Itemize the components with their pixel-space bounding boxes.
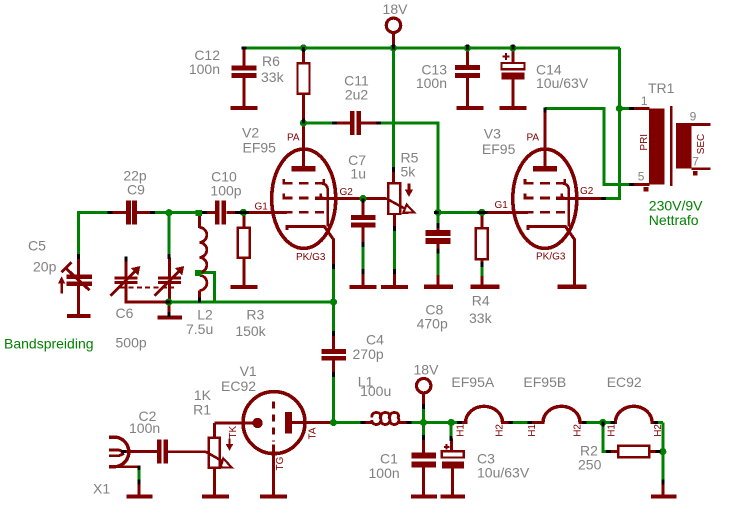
svg-text:100n: 100n xyxy=(369,465,400,481)
junction L2 top xyxy=(195,210,201,216)
resistor R5 xyxy=(388,183,400,214)
label C14 xyxy=(536,61,589,91)
svg-text:5k: 5k xyxy=(401,163,417,179)
transformer TR1 pri dot xyxy=(643,187,648,192)
tube V3 G1 wire xyxy=(484,211,529,214)
pin label TR1 1 xyxy=(641,94,648,108)
capacitor C5 xyxy=(66,275,92,286)
svg-text:C5: C5 xyxy=(28,238,46,254)
label C8 xyxy=(417,301,448,331)
svg-text:SEC: SEC xyxy=(696,134,707,155)
inductor L1 xyxy=(362,413,410,425)
svg-text:Bandspreiding: Bandspreiding xyxy=(4,335,94,351)
wire heater EC92 right link xyxy=(657,421,663,424)
svg-text:R1: R1 xyxy=(193,401,211,417)
tube V3 anode lead xyxy=(543,111,546,167)
capacitor C13 xyxy=(455,65,480,78)
svg-text:EF95: EF95 xyxy=(243,140,277,156)
resistor R6 xyxy=(298,63,310,94)
wire tuned-circuit bottom bus xyxy=(167,301,334,304)
capacitor C5 lead xyxy=(77,258,80,276)
ground R4 xyxy=(470,285,499,289)
wire C10 to V2 G1 dot xyxy=(237,211,245,214)
resistor R5 wiper xyxy=(387,184,415,213)
svg-text:250: 250 xyxy=(578,457,602,473)
label C7 xyxy=(348,152,366,182)
transformer TR1 core xyxy=(670,106,673,186)
capacitor C12 lower lead xyxy=(243,78,246,106)
resistor R1 top lead xyxy=(213,423,216,438)
capacitor C3 lower lead xyxy=(451,468,454,494)
svg-text:EC92: EC92 xyxy=(607,374,642,390)
svg-text:5: 5 xyxy=(638,170,645,184)
junction V3 R4 xyxy=(478,209,485,216)
svg-text:PA: PA xyxy=(287,133,300,144)
wire C7 ground segment xyxy=(362,243,365,274)
inductor L2 bottom lead xyxy=(198,291,201,301)
tube V3 G2 wire xyxy=(556,197,603,200)
svg-text:H1: H1 xyxy=(527,424,538,437)
svg-text:G1: G1 xyxy=(255,202,269,213)
resistor R3 xyxy=(238,228,250,258)
tube V1 envelope xyxy=(243,392,305,454)
tube V2 G1 wire xyxy=(245,211,287,214)
capacitor C8 lead xyxy=(437,225,440,231)
capacitor C1 lower lead xyxy=(422,468,425,495)
wire C8 top segment xyxy=(437,212,440,224)
label V2 xyxy=(242,124,276,155)
capacitor C4 xyxy=(322,349,347,360)
wire V3 G2 segment xyxy=(603,197,619,200)
svg-text:2u2: 2u2 xyxy=(345,87,369,103)
pin label V3 PK/G3 xyxy=(536,251,566,262)
svg-text:H2: H2 xyxy=(573,424,584,437)
svg-text:G2: G2 xyxy=(580,186,594,197)
wire 18V drop to R5 xyxy=(392,48,395,169)
junction rail 18V xyxy=(390,44,397,51)
tube V3 envelope and electrodes xyxy=(513,149,577,248)
capacitor C8 xyxy=(426,230,451,244)
wire L2 tap link xyxy=(199,273,215,303)
label C4 xyxy=(353,332,385,362)
svg-text:EF95A: EF95A xyxy=(451,374,494,390)
svg-text:TR1: TR1 xyxy=(648,80,675,96)
label heater EF95A xyxy=(451,374,494,390)
capacitor C5 trimmer mark xyxy=(62,262,90,290)
svg-text:X1: X1 xyxy=(93,480,110,496)
svg-text:EF95B: EF95B xyxy=(523,374,566,390)
ground R2 xyxy=(651,494,676,498)
svg-text:9: 9 xyxy=(690,110,697,124)
svg-text:Nettrafo: Nettrafo xyxy=(649,212,699,228)
junction V2 G1 xyxy=(240,209,247,216)
resistor R1 bottom lead xyxy=(213,468,216,495)
label R3 xyxy=(235,307,266,340)
junction R2 right xyxy=(659,448,666,455)
junction C6 bottom xyxy=(165,298,172,305)
label C12 xyxy=(189,47,220,77)
svg-text:10u/63V: 10u/63V xyxy=(477,465,530,481)
capacitor C10 leads xyxy=(204,211,237,214)
svg-text:TK: TK xyxy=(228,425,239,438)
label C9 xyxy=(123,168,147,198)
wire V2 cathode drop lower part xyxy=(332,268,335,302)
svg-text:18V: 18V xyxy=(383,1,409,17)
capacitor C14 lead xyxy=(512,48,515,64)
capacitor C9 leads xyxy=(109,211,154,214)
ground C12 xyxy=(231,106,258,110)
pin label H1 a xyxy=(456,424,467,437)
wire R4 ground segment xyxy=(480,266,483,277)
capacitor C14 plus xyxy=(503,53,510,60)
label V1 xyxy=(221,363,257,394)
svg-text:PK/G3: PK/G3 xyxy=(296,252,326,263)
resistor R3 bottom lead xyxy=(242,258,245,285)
ground R5 xyxy=(381,285,408,289)
capacitor C6 gangA stub xyxy=(124,259,127,277)
capacitor C11 leads xyxy=(334,122,380,125)
capacitor C6 gangB lead xyxy=(168,258,171,277)
wire C4 to V1 anode node xyxy=(332,375,335,422)
tube V2 cathode drop xyxy=(332,239,335,268)
wire L1 to 18V node xyxy=(410,421,425,424)
pin label H1 b xyxy=(527,424,538,437)
wire R6/C11/V2-anode node link xyxy=(304,122,334,125)
capacitor C10 xyxy=(215,200,226,224)
svg-text:TG: TG xyxy=(275,456,286,470)
ground C3 xyxy=(441,494,466,498)
wire C9 to C10 segment xyxy=(154,211,204,214)
pin label V2 PK/G3 xyxy=(296,252,326,263)
ground X1 xyxy=(127,494,153,498)
label R5 xyxy=(401,150,419,180)
connector X1 pin xyxy=(109,450,124,456)
svg-text:G2: G2 xyxy=(340,187,354,198)
capacitor C13 lower lead xyxy=(466,78,469,106)
capacitor C6 gangA bottom xyxy=(126,284,167,302)
heater EF95A arc xyxy=(461,406,510,422)
svg-text:C6: C6 xyxy=(116,305,134,321)
tube V1 cathode dot and TK wire xyxy=(215,418,263,428)
junction TR1 pin1 xyxy=(616,105,623,112)
wire C6 gangB feed xyxy=(167,213,170,258)
svg-text:100n: 100n xyxy=(416,75,447,91)
svg-text:100n: 100n xyxy=(129,420,160,436)
svg-text:1u: 1u xyxy=(350,166,366,182)
svg-text:PRI: PRI xyxy=(639,134,650,151)
pin label TR1 SEC xyxy=(696,134,707,155)
label C3 xyxy=(477,450,530,480)
pin label V3 G2 xyxy=(580,186,594,197)
wire R2 left branch xyxy=(603,423,608,452)
svg-text:7: 7 xyxy=(692,155,699,169)
pin label V2 G1 xyxy=(255,202,269,213)
pin label TR1 PRI xyxy=(639,134,650,151)
wire 18V node down to C1 xyxy=(422,423,425,438)
pin label V3 PA xyxy=(527,133,540,144)
capacitor C7 xyxy=(351,215,376,227)
transformer TR1 secondary xyxy=(676,123,691,169)
wire node to C4 xyxy=(332,302,335,333)
tube V1 grid xyxy=(272,402,275,442)
capacitor C7 lower lead xyxy=(362,228,365,286)
wire heater end down to R2 node xyxy=(661,423,664,452)
svg-text:33k: 33k xyxy=(469,310,493,326)
wire R2 node to ground xyxy=(661,452,664,483)
ground C5 xyxy=(67,314,90,318)
tube V3 cathode drop xyxy=(573,239,576,286)
svg-text:V1: V1 xyxy=(240,363,257,379)
resistor R4 top lead xyxy=(480,214,483,229)
transformer TR1 sec dot xyxy=(693,171,698,175)
connector X1 ground lead xyxy=(138,483,141,495)
ground R1 xyxy=(202,494,229,498)
capacitor C4 leads xyxy=(332,332,335,376)
label 230V/9V xyxy=(649,198,703,214)
label TR1 xyxy=(648,80,675,96)
ground C6 xyxy=(158,315,182,319)
junction V3 C8 xyxy=(434,209,441,216)
connector X1 shell xyxy=(109,437,129,467)
pin label H2 a xyxy=(495,424,506,437)
junction rail C13 xyxy=(464,44,471,51)
svg-text:H2: H2 xyxy=(653,424,664,437)
svg-text:TA: TA xyxy=(308,427,319,439)
svg-text:V3: V3 xyxy=(484,126,501,142)
wire V1 anode node to L1 xyxy=(334,421,362,424)
wire C9 input left branch to C5 xyxy=(79,213,110,258)
junction V2 cathode node xyxy=(330,298,337,305)
heater EC92 arc xyxy=(614,406,655,422)
capacitor C3 plus xyxy=(444,444,450,450)
capacitor C9 xyxy=(126,201,137,225)
wire V3 G1 segment xyxy=(438,211,482,214)
label C5 xyxy=(28,238,57,275)
pin label V2 G2 xyxy=(340,187,354,198)
pin label V3 G1 xyxy=(495,200,509,211)
junction C9 out xyxy=(165,209,172,216)
wire X1 shell ground segment xyxy=(138,468,141,483)
svg-text:R6: R6 xyxy=(262,53,280,69)
connector X1 shell lead xyxy=(115,467,139,469)
svg-text:PA: PA xyxy=(527,133,540,144)
label heater EC92 xyxy=(607,374,642,390)
wire C3 node drop xyxy=(450,423,453,439)
wire heater EF95A-EF95B link xyxy=(513,421,529,424)
svg-text:33k: 33k xyxy=(261,69,285,85)
tube V1 anode xyxy=(285,412,333,433)
transformer TR1 pin5 lead xyxy=(634,183,650,186)
resistor R2 ground lead xyxy=(661,483,664,495)
pin label H2 c xyxy=(653,424,664,437)
pin label H1 c xyxy=(607,424,618,437)
capacitor C6 gangA arrow xyxy=(111,266,141,296)
svg-text:18V: 18V xyxy=(414,362,440,378)
ground C8 xyxy=(424,285,453,289)
label C10 xyxy=(210,169,241,199)
capacitor C5 lower lead xyxy=(77,286,80,314)
pin end markers xyxy=(79,45,663,485)
wire 18V lead lower part xyxy=(422,408,425,423)
tube V2 anode lead xyxy=(302,123,305,167)
svg-text:100u: 100u xyxy=(360,383,391,399)
capacitor C6 gangB bottom xyxy=(168,284,171,301)
ground C1 xyxy=(411,494,437,498)
transformer TR1 primary xyxy=(649,108,664,184)
svg-text:R4: R4 xyxy=(472,292,490,308)
svg-text:470p: 470p xyxy=(417,316,448,332)
capacitor C7 lead xyxy=(362,199,365,216)
resistor R1 xyxy=(209,438,220,468)
ground C7 xyxy=(350,285,377,289)
heater EF95B arc xyxy=(532,406,584,422)
wire C11 right to V3 G1 xyxy=(379,123,438,212)
wire top rail right drop to TR1/G2 net xyxy=(603,48,619,199)
pin label V2 PA xyxy=(287,133,300,144)
svg-text:7.5u: 7.5u xyxy=(186,321,213,337)
pin label TR1 9 xyxy=(690,110,697,124)
svg-text:V2: V2 xyxy=(242,124,259,140)
resistor R6 leads xyxy=(302,48,305,122)
transformer TR1 sec leads xyxy=(692,124,711,168)
tube V2 envelope and electrodes xyxy=(272,149,336,248)
resistor R2 xyxy=(618,446,649,458)
junction heater R2 xyxy=(599,419,606,426)
svg-text:R3: R3 xyxy=(246,307,264,323)
label R4 xyxy=(469,292,493,326)
supply 18V top xyxy=(386,18,400,46)
resistor R3 top lead xyxy=(242,214,245,229)
inductor L2 xyxy=(199,227,207,290)
junction rail R6 xyxy=(300,44,307,51)
capacitor C8 lower lead xyxy=(437,244,440,285)
svg-text:1: 1 xyxy=(641,94,648,108)
svg-text:270p: 270p xyxy=(353,346,384,362)
pin label V1 TK arrow xyxy=(226,439,234,451)
capacitor C6 ground lead xyxy=(167,302,170,315)
junction C3 node xyxy=(448,419,455,426)
label C2 xyxy=(129,408,160,436)
resistor R5 bottom lead xyxy=(393,214,396,285)
capacitor C3 top lead xyxy=(450,439,453,453)
supply 18V bottom xyxy=(417,379,431,406)
pin label V1 TA xyxy=(308,427,319,439)
junction 18V bottom node xyxy=(420,419,427,426)
label C13 xyxy=(416,61,447,91)
label Nettrafo xyxy=(649,212,699,228)
wire TR1 pin1 stub xyxy=(620,107,631,110)
junction V1 anode node xyxy=(330,419,337,426)
resistor R4 bottom lead xyxy=(480,259,483,285)
ground C14 xyxy=(500,106,527,110)
capacitor C1 xyxy=(412,453,436,468)
svg-text:C1: C1 xyxy=(380,450,398,466)
svg-text:PK/G3: PK/G3 xyxy=(536,251,566,262)
svg-text:H2: H2 xyxy=(495,424,506,437)
tube V1 TG lead xyxy=(272,445,275,495)
resistor R4 xyxy=(476,228,488,259)
resistor R2 leads xyxy=(608,450,658,453)
label heater EF95B xyxy=(523,374,566,390)
svg-text:100p: 100p xyxy=(210,182,241,198)
pin label TR1 5 xyxy=(638,170,645,184)
label R6 xyxy=(261,53,285,85)
svg-text:100n: 100n xyxy=(189,61,220,77)
capacitor C14 xyxy=(502,63,525,79)
capacitor C12 lead xyxy=(243,48,246,66)
resistor R5 top lead xyxy=(392,170,395,184)
svg-text:G1: G1 xyxy=(495,200,509,211)
ground C13 xyxy=(457,106,484,110)
svg-text:C9: C9 xyxy=(127,181,145,197)
junction R6 bottom xyxy=(300,119,307,126)
svg-text:H1: H1 xyxy=(607,424,618,437)
svg-text:EC92: EC92 xyxy=(221,378,256,394)
capacitor C2 leads xyxy=(124,450,157,453)
svg-text:10u/63V: 10u/63V xyxy=(536,75,589,91)
junction rail C14 xyxy=(509,44,516,51)
capacitor C6 gangB xyxy=(158,276,181,284)
capacitor C6 gang link xyxy=(120,287,174,289)
wire R5 ground segment xyxy=(393,228,396,274)
label V3 xyxy=(482,126,516,157)
capacitor C14 lower lead xyxy=(512,79,515,106)
wire heater EF95B-EC92 link xyxy=(586,421,612,424)
label R2 xyxy=(578,442,602,472)
pin label V1 TK xyxy=(228,425,239,438)
capacitor C6 gangB arrow xyxy=(154,266,184,296)
capacitor C12 xyxy=(232,66,257,79)
pin label TR1 7 xyxy=(692,155,699,169)
label 18V top xyxy=(383,1,409,17)
tube V2 G2 wire xyxy=(315,197,387,200)
ground V1 xyxy=(260,494,287,498)
label C6 xyxy=(116,305,147,350)
svg-text:500p: 500p xyxy=(116,335,147,351)
capacitor C5 adjust arrow xyxy=(58,276,65,293)
capacitor C6 gangA xyxy=(114,276,137,284)
ground V3 xyxy=(557,285,586,289)
label C11 xyxy=(344,73,369,103)
capacitor C13 lead xyxy=(466,48,469,66)
label Bandspreiding xyxy=(4,335,94,351)
junction L2 tap xyxy=(195,270,201,276)
svg-text:H1: H1 xyxy=(456,424,467,437)
svg-text:EF95: EF95 xyxy=(482,141,516,157)
label X1 xyxy=(93,480,110,496)
capacitor C2 xyxy=(157,440,168,464)
pin label H2 b xyxy=(573,424,584,437)
junction C7 G2 xyxy=(359,195,366,202)
svg-text:20p: 20p xyxy=(33,259,57,275)
wire C8 ground segment xyxy=(437,250,440,277)
label R1 xyxy=(193,387,212,418)
wire +18V top rail xyxy=(244,47,620,50)
wire C3 node to heater EF95A xyxy=(451,421,459,424)
inductor L2 top lead xyxy=(198,213,201,228)
pin label V1 TG xyxy=(275,456,286,470)
transformer TR1 pin1 lead xyxy=(634,107,650,110)
label L1 xyxy=(358,374,391,399)
capacitor C11 xyxy=(350,111,361,135)
wire 18V node to C3 node xyxy=(424,421,452,424)
label 18V bottom xyxy=(414,362,440,378)
label C1 xyxy=(369,450,400,481)
capacitor C1 lead xyxy=(422,438,425,453)
resistor R1 wiper xyxy=(168,452,232,468)
wire V3 anode to TR1 pin5 xyxy=(545,109,631,185)
ground R3 xyxy=(230,285,257,289)
